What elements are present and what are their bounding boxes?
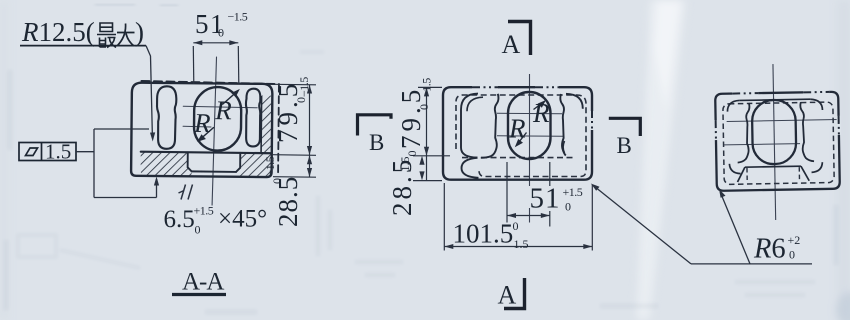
chain gaps [732,91,758,95]
recess slant right [801,166,809,181]
CJK 大 glyph drawn [117,24,135,47]
chain line segment right edge [591,111,593,129]
svg-text:R6: R6 [753,234,786,265]
svg-text:0: 0 [789,248,795,262]
svg-text:−1.5: −1.5 [263,156,277,176]
section marker B right [609,118,641,136]
inner cavity second arc top-left [467,97,483,111]
horizontal centerline lower [724,144,800,145]
svg-text:R12.5(: R12.5( [21,17,95,47]
svg-text:51: 51 [530,183,561,215]
svg-text:A: A [498,281,517,310]
blank outline dashed right [277,85,280,173]
left slot [157,86,177,149]
inner corner arcs [727,99,823,174]
frame leader lines [76,129,157,198]
svg-text:0: 0 [218,26,224,40]
svg-text:A-A: A-A [182,269,224,296]
left slot wavy edge [737,103,751,163]
vertical centerline [529,74,531,223]
middle view left dims 79.5 / 28.5 [413,87,450,180]
hatched bottom-right block [238,153,271,177]
svg-text:+1.5: +1.5 [563,185,583,199]
inner cavity contour left [461,94,478,158]
R6 underline [691,263,812,265]
horizontal centerline upper [497,112,562,115]
right wall inner edge [260,97,263,153]
right slot wavy edge [560,94,565,156]
svg-text:1.5: 1.5 [398,157,412,172]
faint bleed-through from page back [95,4,178,6]
R leader upper [223,91,238,105]
svg-text:R: R [193,108,211,138]
right slot wavy edge [800,102,814,162]
short dashed verticals [747,167,800,181]
inner dashed contour [456,95,586,177]
outer outline [715,92,840,191]
svg-text:+1.5: +1.5 [194,204,214,218]
right slot [246,89,261,147]
middle view 51 dim [507,162,550,227]
svg-text:×45°: ×45° [218,206,267,233]
svg-text:101.5: 101.5 [453,219,514,249]
svg-text:−1.5: −1.5 [228,10,248,24]
svg-text:1.5: 1.5 [514,237,529,251]
middle view 101.5 dim [444,183,592,251]
section marker A top [508,22,531,56]
central oval [752,100,797,165]
svg-text:): ) [135,17,144,47]
right side dims of left view: 79.5 / 28.5 [273,84,316,177]
svg-text:R: R [532,98,550,128]
svg-text:+2: +2 [788,233,801,247]
arrow to bottom face [154,177,159,186]
horizontal centerline lower [497,135,563,138]
recess slant left [737,167,745,182]
underline of R12.5 label [20,45,146,47]
chamfer dimension ticks [179,185,193,200]
hatched bottom-left block [141,152,192,176]
R leader lower [199,127,213,140]
svg-text:0: 0 [294,97,308,103]
R leader upper (middle view) [534,102,544,110]
svg-text:0: 0 [513,219,519,233]
central oval [508,92,551,159]
central oval hole [194,87,242,151]
centerline horizontal upper (R arc center) [183,106,257,108]
svg-text:0: 0 [270,178,284,184]
R6 leader to right view corner [721,194,750,264]
chain segments on right edge [838,116,840,134]
chain segments on top edge [732,92,829,94]
recess step left [188,152,192,171]
chain segments on left edge [715,120,717,138]
bottom recess line [745,165,801,168]
svg-text:0: 0 [417,104,431,110]
dimension 51 top [193,43,239,84]
horizontal centerline upper [727,120,838,122]
recess floor [192,170,236,173]
blank outline dashed top [141,81,279,84]
outer outline [443,87,592,180]
svg-text:−1.5: −1.5 [420,78,434,98]
centerline horizontal lower (R arc center) [183,125,211,128]
small arc bottom right [563,141,564,153]
R leader lower (middle view) [517,133,527,145]
svg-text:0: 0 [405,151,419,157]
section marker A bottom [504,278,525,309]
svg-text:R: R [214,95,232,125]
flatness tolerance frame [19,143,76,161]
svg-text:0: 0 [195,223,201,237]
inner dashed rect [723,102,834,184]
left slot wavy edge [481,94,499,158]
svg-text:R: R [508,114,526,144]
chain line gaps on top edge [472,85,498,89]
svg-text:B: B [369,130,384,155]
chain line segment top-left [472,86,560,88]
svg-text:6.5: 6.5 [164,206,195,233]
centerline vertical left view [212,57,216,205]
recess step right [236,153,240,172]
svg-text:B: B [617,133,632,158]
svg-text:A: A [502,30,521,59]
leader from R12.5 to slot bottom [146,46,152,137]
body outline [131,83,272,178]
CJK 最 glyph drawn [97,23,116,48]
bottom-left bulge arc [462,158,479,178]
svg-text:−1.5: −1.5 [297,77,311,97]
section marker B left [358,115,392,136]
vertical centerline right view [773,64,776,220]
R6 leader to middle view corner [595,187,692,264]
hatched right wall [261,96,271,154]
svg-text:0: 0 [565,200,571,214]
svg-text:1.5: 1.5 [45,140,71,164]
base strip top edge [141,152,271,154]
inner cavity contour right corner [566,94,583,109]
